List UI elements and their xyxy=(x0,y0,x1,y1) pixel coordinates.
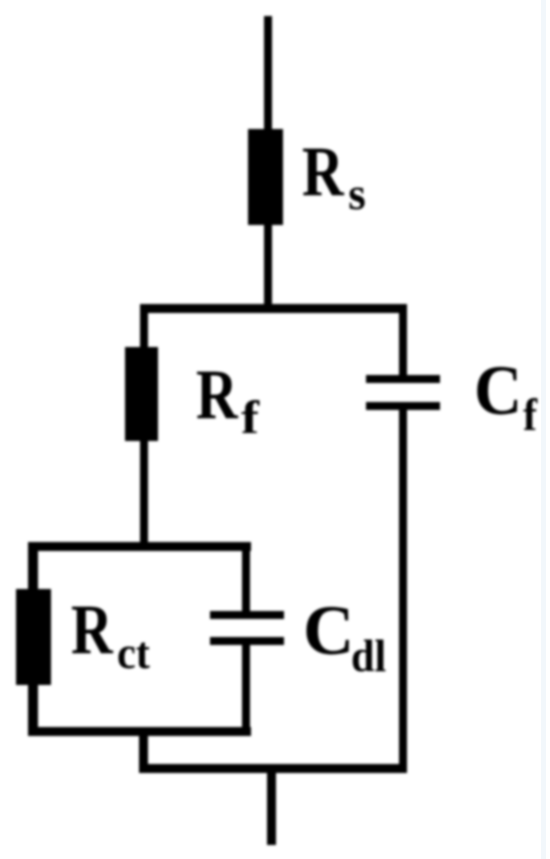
faint scrollbar line at right edge xyxy=(541,0,546,859)
wire inner box to bottom node xyxy=(139,736,148,773)
resistor Rs xyxy=(248,129,283,225)
wire inner box bottom xyxy=(28,727,251,736)
wire Rs to top node xyxy=(264,225,272,313)
label Rct subscript "ct" xyxy=(117,631,150,676)
wire inner box left xyxy=(28,542,38,736)
wire inner box right upper xyxy=(242,542,250,614)
label Rs "R" xyxy=(302,137,344,208)
wire top lead xyxy=(264,16,272,134)
label Cdl "C" xyxy=(303,596,354,667)
wire bottom horizontal node xyxy=(139,764,404,773)
wire inner box top xyxy=(28,542,251,551)
capacitor Cf top plate xyxy=(366,375,440,383)
resistor Rct xyxy=(16,589,51,685)
wire Rf to inner box xyxy=(140,441,148,545)
capacitor Cdl bottom plate xyxy=(210,637,284,645)
wire right branch upper xyxy=(399,304,407,378)
label Rf "R" xyxy=(196,360,238,431)
label Cf "C" xyxy=(474,356,522,427)
wire left branch upper xyxy=(140,304,148,351)
wire top horizontal node xyxy=(140,304,406,313)
label Cf subscript "f" xyxy=(523,393,537,438)
label Cdl subscript "dl" xyxy=(351,634,386,679)
label Rs subscript "s" xyxy=(348,172,366,217)
label Rct "R" xyxy=(71,595,113,666)
wire bottom lead xyxy=(267,773,276,845)
capacitor Cf bottom plate xyxy=(366,402,440,410)
wire right branch lower xyxy=(399,410,407,773)
capacitor Cdl top plate xyxy=(210,611,284,619)
resistor Rf xyxy=(125,347,158,441)
wire inner box right lower xyxy=(242,645,250,736)
label Rf subscript "f" xyxy=(241,395,259,442)
